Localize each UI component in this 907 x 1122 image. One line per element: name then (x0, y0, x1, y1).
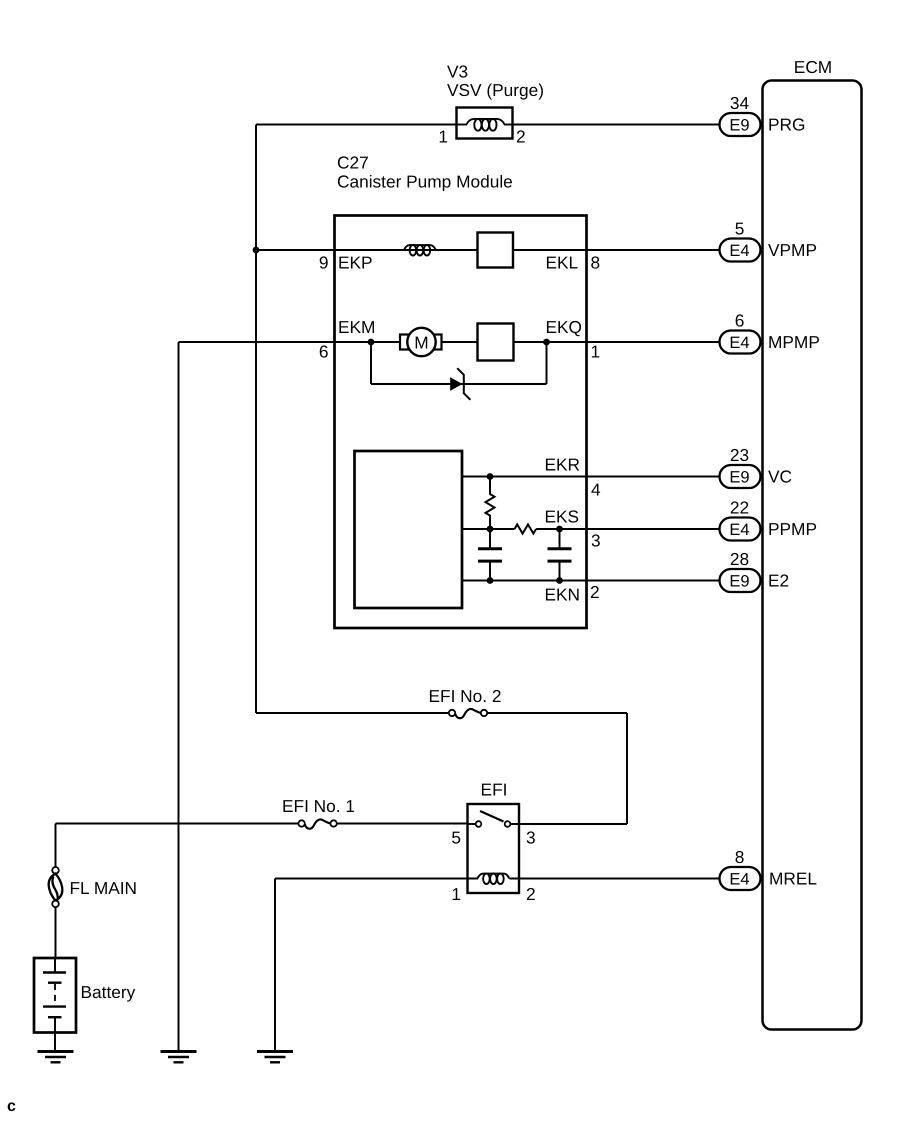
zener diode anode triangle (450, 377, 462, 390)
wire: FL MAIN to battery (55, 907, 57, 958)
relay EFI box (468, 804, 520, 893)
junction node EKS right (556, 526, 563, 533)
ground G2 pump module (161, 1052, 197, 1063)
svg-text:EKS: EKS (545, 507, 580, 527)
svg-text:5: 5 (451, 828, 461, 848)
motor M brush left (400, 335, 409, 350)
wire: EKM ground riser vertical (178, 342, 180, 1051)
battery plate short 2 (48, 1016, 62, 1018)
svg-text:6: 6 (735, 311, 745, 331)
capacitor C right plates (548, 547, 572, 550)
svg-text:2: 2 (516, 127, 526, 147)
svg-text:4: 4 (591, 480, 601, 500)
wire: vertical down to relay pin3 (626, 713, 628, 824)
svg-text:3: 3 (526, 828, 536, 848)
fuse EFI No.1 (298, 819, 336, 828)
EKQ driver block (478, 324, 514, 361)
capacitor C left: lead bottom (489, 562, 491, 581)
svg-text:23: 23 (730, 445, 749, 465)
wire EFI No.2 row left (256, 712, 449, 714)
capacitor C right: lead bottom (559, 562, 561, 581)
fusible link FL MAIN body (49, 874, 63, 901)
svg-text:EKN: EKN (545, 585, 581, 605)
svg-text:MPMP: MPMP (768, 332, 820, 352)
wire: battery feed corner vertical (55, 824, 57, 868)
fusible link FL MAIN top terminal (52, 867, 59, 874)
wire: EKQ to MPMP (514, 341, 720, 343)
svg-text:c: c (7, 1098, 16, 1115)
capacitor C left plates (478, 547, 502, 550)
wire EKN row (462, 580, 720, 582)
fuse EFI No.2 (449, 709, 487, 718)
solenoid valve V3 box (457, 108, 513, 139)
wire stub to pin5 (468, 823, 476, 825)
junction node EKQ/zener (543, 339, 550, 346)
connector oval E4 pin 22 PPMP (720, 518, 761, 541)
svg-text:E9: E9 (729, 573, 749, 591)
capacitor C right: lead top (559, 529, 561, 548)
svg-text:EFI No. 1: EFI No. 1 (282, 796, 355, 816)
svg-text:2: 2 (590, 582, 600, 602)
svg-text:E2: E2 (768, 571, 789, 591)
wire: VSV pin1 to riser (256, 124, 457, 126)
wire: relay coil pin2 to MREL (509, 878, 719, 880)
svg-text:6: 6 (319, 342, 329, 362)
EKP driver block (478, 233, 514, 268)
fusible link FL MAIN bottom terminal (52, 901, 59, 908)
wire stub from pin3 (510, 823, 519, 825)
svg-text:VSV (Purge): VSV (Purge) (447, 80, 544, 100)
connector oval E4 pin 6 MPMP (720, 331, 761, 354)
svg-text:VC: VC (768, 467, 792, 487)
wire zener bypass left leg (370, 342, 372, 384)
V3 coil winding (457, 119, 514, 131)
wire zener bypass bottom (371, 383, 547, 385)
svg-text:E4: E4 (729, 334, 749, 352)
EKP coil winding (404, 245, 436, 255)
connector oval E9 pin 28 E2 (720, 569, 761, 592)
junction node EKS left (487, 526, 494, 533)
resistor R vertical (486, 477, 495, 530)
svg-text:EFI: EFI (481, 780, 508, 800)
svg-text:1: 1 (591, 342, 601, 362)
wire: ground riser from relay coil (274, 879, 276, 1052)
svg-text:1: 1 (438, 127, 448, 147)
battery box (34, 958, 76, 1033)
svg-text:PRG: PRG (768, 115, 805, 135)
svg-text:C27: C27 (337, 153, 369, 173)
battery top lead (54, 958, 56, 973)
C27 module box (335, 216, 587, 629)
svg-text:E9: E9 (729, 469, 749, 487)
wire: relay pin3 to vertical (510, 823, 627, 825)
motor M circle (407, 328, 435, 356)
connector oval E9 pin 34 PRG (720, 113, 761, 136)
svg-text:EKP: EKP (338, 253, 373, 273)
wire: EKL to VPMP (513, 249, 720, 251)
svg-text:5: 5 (735, 219, 745, 239)
junction node EKR (487, 473, 494, 480)
svg-text:EKQ: EKQ (546, 317, 583, 337)
svg-text:8: 8 (735, 847, 745, 867)
svg-text:V3: V3 (447, 62, 468, 82)
svg-text:EKM: EKM (338, 317, 375, 337)
svg-text:3: 3 (591, 531, 601, 551)
wire EKR row (462, 476, 720, 478)
svg-text:1: 1 (451, 884, 461, 904)
wire EKS row left (462, 528, 515, 530)
wire EKM row to ground riser (179, 341, 335, 343)
svg-text:E9: E9 (729, 117, 749, 135)
svg-text:EKL: EKL (546, 253, 579, 273)
wire EKM row inside module (335, 341, 478, 343)
battery plate short 1 (48, 982, 62, 984)
wire zener bypass right leg (546, 342, 548, 384)
svg-text:EFI No. 2: EFI No. 2 (429, 686, 502, 706)
svg-text:MREL: MREL (769, 869, 817, 889)
battery plate long 1 (43, 971, 66, 973)
svg-text:22: 22 (730, 498, 749, 518)
svg-text:E4: E4 (729, 242, 749, 260)
zener diode cathode bar (457, 368, 470, 400)
relay switch contact pin5 (476, 821, 482, 827)
junction node: riser/EKP tap (253, 247, 260, 254)
svg-text:M: M (414, 333, 428, 353)
battery cell dashes (54, 984, 56, 1006)
svg-text:ECM: ECM (794, 57, 832, 77)
wire EFI No.1 row right (337, 823, 476, 825)
relay switch contact pin3 (505, 821, 511, 827)
svg-text:34: 34 (730, 93, 750, 113)
svg-text:VPMP: VPMP (768, 240, 817, 260)
capacitor C left: lead top (489, 529, 491, 548)
svg-text:E4: E4 (729, 871, 749, 889)
svg-text:28: 28 (730, 549, 749, 569)
connector oval E4 pin 8 MREL (720, 867, 761, 890)
svg-text:2: 2 (526, 884, 536, 904)
svg-text:FL MAIN: FL MAIN (70, 878, 138, 898)
ground G1 battery (38, 1052, 74, 1063)
wire EKP row (256, 249, 478, 251)
svg-text:8: 8 (591, 253, 601, 273)
ECM box (763, 81, 862, 1030)
svg-text:Battery: Battery (81, 982, 136, 1002)
svg-text:9: 9 (319, 253, 329, 273)
connector oval E9 pin 23 VC (720, 465, 761, 488)
sensor block inside C27 (355, 451, 463, 608)
junction node EKM/zener (368, 339, 375, 346)
relay switch arm (480, 811, 504, 822)
wire EKS row right (536, 528, 719, 530)
resistor R horizontal (515, 525, 537, 534)
battery bottom lead (54, 1017, 56, 1051)
svg-text:EKR: EKR (545, 455, 581, 475)
wire relay coil pin1 row (275, 878, 478, 880)
wire: battery feed riser (left of C27) (255, 125, 257, 714)
ground G3 relay (257, 1052, 293, 1063)
junction node EKN right (556, 577, 563, 584)
battery plate long 2 (43, 1005, 66, 1007)
svg-text:E4: E4 (729, 521, 749, 539)
motor M brush right (433, 335, 442, 350)
junction node EKN left (487, 577, 494, 584)
relay coil winding (478, 874, 510, 884)
svg-text:Canister Pump Module: Canister Pump Module (337, 172, 513, 192)
svg-text:PPMP: PPMP (768, 519, 817, 539)
connector oval E4 pin 5 VPMP (720, 239, 761, 262)
wire PRG: VSV pin2 to ECM (513, 124, 720, 126)
wire EFI No.1 row left (56, 823, 299, 825)
wire EFI No.2 row right (487, 712, 627, 714)
